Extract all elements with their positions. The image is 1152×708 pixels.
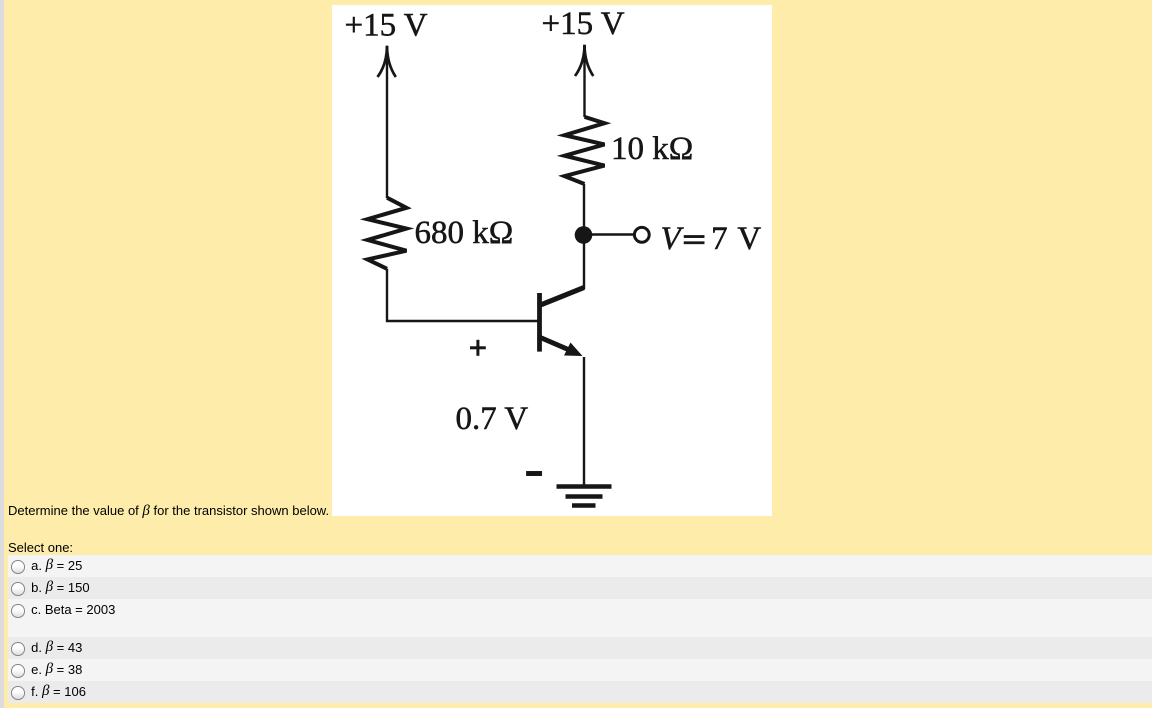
svg-text:10 kΩ: 10 kΩ <box>611 131 693 167</box>
svg-text:0.7 V: 0.7 V <box>455 401 528 437</box>
svg-text:+15 V: +15 V <box>344 8 427 44</box>
svg-text:V7V: V7V <box>660 221 761 257</box>
svg-text:680 kΩ: 680 kΩ <box>414 215 513 251</box>
svg-text:+15 V: +15 V <box>541 6 624 42</box>
